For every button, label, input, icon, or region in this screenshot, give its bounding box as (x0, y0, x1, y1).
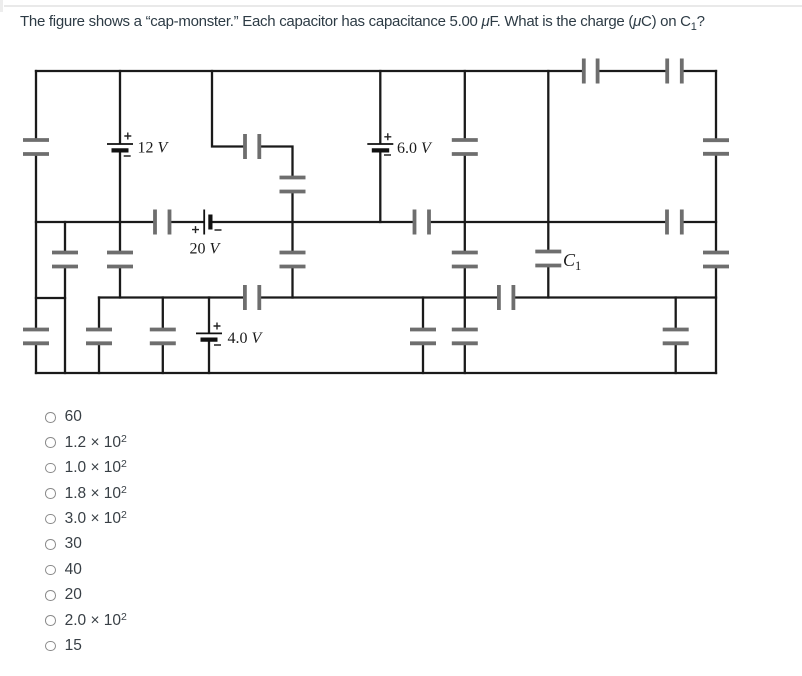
battery 6.0V (367, 133, 393, 155)
wire connector left (36, 297, 65, 299)
wire right outer branch (715, 71, 717, 373)
wire 12V branch (119, 71, 121, 298)
capacitor branch x675.7 (663, 330, 689, 344)
capacitor x292.5 lower (280, 253, 306, 267)
wire branch x162.8 (162, 298, 164, 374)
capacitor x464.8 bottom (452, 330, 478, 344)
capacitor middle rail right (667, 210, 682, 235)
wire branch x464.8 (464, 71, 466, 373)
wire upper jog left (212, 71, 243, 147)
wire bottom rail (36, 372, 716, 374)
capacitor middle rail left (155, 210, 170, 235)
capacitor left branch upper (23, 140, 49, 154)
wire 4V branch (208, 298, 210, 374)
wire low stub x292.5 (291, 269, 293, 298)
capacitor upper jog (245, 134, 259, 159)
wire branch x675.7 (675, 298, 677, 374)
capacitor top rail left (584, 59, 598, 84)
wire branch x548.3 (547, 71, 549, 298)
wire left outer branch (35, 71, 37, 373)
capacitor top rail right (667, 59, 682, 84)
wire branch x65 (64, 222, 66, 373)
capacitor third rail left (245, 285, 259, 310)
capacitor branch x99 (86, 330, 112, 344)
svg-text:C1: C1 (563, 250, 581, 273)
capacitor middle rail center (415, 210, 430, 235)
wire third rail (99, 296, 716, 298)
svg-text:6.0 V: 6.0 V (397, 140, 433, 157)
battery 20V (192, 210, 222, 235)
wire branch x423 (422, 298, 424, 374)
svg-text:20 V: 20 V (190, 241, 222, 258)
capacitor 12V branch lower (107, 253, 133, 267)
capacitor third rail right (499, 285, 514, 310)
capacitor left branch lower (23, 330, 49, 344)
wire 6V branch (379, 71, 381, 222)
wire branch x99 (98, 298, 100, 374)
capacitor right branch upper (703, 140, 729, 154)
capacitor right branch lower (703, 253, 729, 267)
wire top rail (36, 70, 716, 72)
capacitor x464.8 top (452, 140, 478, 154)
wire middle rail (36, 221, 716, 223)
capacitor branch x65 (52, 253, 78, 267)
svg-text:12 V: 12 V (138, 140, 170, 157)
wire mid stub x292.5 (291, 194, 293, 251)
wire upper jog right (261, 147, 292, 176)
svg-text:4.0 V: 4.0 V (228, 330, 264, 347)
battery 4.0V (196, 323, 222, 346)
capacitor x292.5 upper (280, 178, 306, 192)
capacitor branch x423 (410, 330, 436, 344)
capacitor C1 (535, 252, 561, 266)
battery 12V (107, 133, 133, 157)
capacitor branch x162.8 (150, 330, 176, 344)
capacitor x464.8 middle (452, 253, 478, 267)
